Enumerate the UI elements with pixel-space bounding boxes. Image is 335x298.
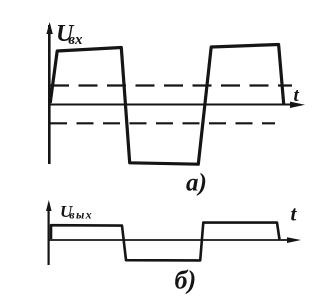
plot b: output voltage clipped square waveform [51,223,280,261]
plot b: horizontal time axis [48,239,291,241]
svg-text:t: t [291,202,298,226]
svg-text:t: t [294,85,300,106]
plot a: vertical voltage axis [48,25,51,164]
plot b: vertical axis arrowhead [46,200,52,211]
svg-text:вх: вх [68,32,83,48]
plot a: input voltage trapezoidal waveform [50,45,284,165]
plot a: vertical axis arrowhead [46,22,52,34]
plot b: time axis arrowhead [287,237,301,243]
plot a: horizontal time axis [48,104,294,106]
svg-text:б): б) [175,266,197,295]
plot a: time axis arrowhead [290,102,305,108]
plot b: vertical voltage axis [47,206,49,265]
plot a: upper threshold dashed line [50,84,292,86]
svg-text:вых: вых [69,208,93,222]
plot a: lower threshold dashed line [50,122,275,124]
svg-text:а): а) [186,170,207,197]
